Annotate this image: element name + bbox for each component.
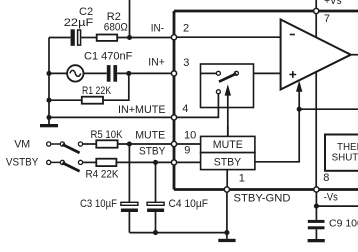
wire box to op-amp + <box>254 72 281 74</box>
node rail/source <box>46 71 51 76</box>
wire +Vs to pin 7 to op-amp <box>315 0 317 37</box>
svg-text:1: 1 <box>239 173 245 185</box>
wire bottom contact to IN+MUTE line <box>174 94 218 118</box>
svg-text:C4 10µF: C4 10µF <box>169 198 209 210</box>
svg-text:10: 10 <box>184 129 196 141</box>
wire arrow line MUTE box top <box>227 126 229 136</box>
op-amp U1 <box>281 20 351 90</box>
switch contact left <box>216 71 220 75</box>
svg-text:4: 4 <box>182 103 188 115</box>
svg-text:IN-: IN- <box>151 22 164 34</box>
node junction R2/pin2 <box>127 35 132 40</box>
switch lever <box>219 74 236 82</box>
node MUTE/C3 <box>127 141 132 146</box>
wire rail to source <box>49 72 67 74</box>
svg-text:680Ω: 680Ω <box>104 22 128 34</box>
resistor R5 <box>96 140 117 147</box>
arrow mute to switch <box>225 84 231 136</box>
svg-text:R1 22K: R1 22K <box>82 85 112 97</box>
switch contact bottom <box>216 90 220 94</box>
resistor R1 <box>82 97 103 104</box>
wire pin8 to -Vs rail <box>315 190 317 220</box>
node rail/IN+MUTE <box>46 115 51 120</box>
thermal shutdown block <box>325 135 358 171</box>
wire pin2 to op-amp minus <box>174 36 281 38</box>
ground <box>40 124 58 127</box>
pin 3 <box>171 71 176 76</box>
pin 8 <box>314 187 319 192</box>
svg-text:STBY-GND: STBY-GND <box>234 193 291 205</box>
node C4/rail <box>153 230 158 235</box>
ground <box>308 239 325 242</box>
wire to ground <box>226 233 228 239</box>
svg-text:+Vs: +Vs <box>324 0 342 7</box>
svg-text:2: 2 <box>183 23 189 35</box>
svg-text:STBY: STBY <box>139 146 166 158</box>
wire rail to R1 <box>49 99 82 101</box>
capacitor C2 <box>71 29 81 46</box>
wire source to C1 <box>84 72 107 74</box>
wire switch to R4 <box>83 161 97 163</box>
svg-text:C1 470nF: C1 470nF <box>84 50 133 62</box>
resistor R2 <box>97 35 118 41</box>
wire bottom rail <box>129 232 227 234</box>
capacitor C3 <box>121 202 138 212</box>
svg-text:8: 8 <box>323 172 329 184</box>
signal source V1 <box>67 65 83 81</box>
wire op-amp bottom to pin 8 <box>315 72 317 190</box>
svg-text:-Vs: -Vs <box>324 191 338 203</box>
svg-text:VM: VM <box>14 139 30 151</box>
node IN+ / R1 <box>126 71 131 76</box>
STBY block <box>201 153 255 170</box>
wire R5 to pin 10 / MUTE box <box>118 143 201 145</box>
pin 4 <box>171 115 176 120</box>
svg-text:R4 22K: R4 22K <box>86 169 120 181</box>
wire R1 to IN+ node <box>103 73 129 100</box>
svg-text:VSTBY: VSTBY <box>6 156 39 168</box>
switch box (mute switch) <box>201 64 254 108</box>
capacitor C1 <box>107 65 117 82</box>
svg-text:MUTE: MUTE <box>135 130 165 142</box>
svg-text:7: 7 <box>324 13 330 25</box>
pin 1 <box>224 187 229 192</box>
svg-text:R5 10K: R5 10K <box>91 129 124 141</box>
minus sign <box>290 34 295 36</box>
wire C3 vertical <box>128 144 130 233</box>
svg-text:C9 100nF: C9 100nF <box>329 217 358 229</box>
node bootstrap <box>297 107 302 112</box>
svg-text:22µF: 22µF <box>64 17 94 29</box>
wire: left input rail <box>49 38 71 125</box>
capacitor C9 <box>308 220 325 229</box>
wire switch to R5 <box>83 143 97 145</box>
svg-text:IN+MUTE: IN+MUTE <box>118 104 166 116</box>
capacitor C4 <box>147 202 164 212</box>
plus sign <box>289 71 296 78</box>
node rail/ground <box>224 230 229 235</box>
node -Vs <box>314 204 319 209</box>
switch SW-VM <box>47 142 83 153</box>
svg-text:IN+: IN+ <box>148 57 165 69</box>
wire C9 to ground <box>315 229 317 239</box>
IC TDA7294 outline <box>174 11 358 190</box>
wire R2 to pin 2 <box>117 37 174 39</box>
svg-text:C3 10µF: C3 10µF <box>80 198 117 210</box>
wire C4 vertical <box>155 162 157 232</box>
switch SW-VSTBY <box>47 160 83 171</box>
switch contact right <box>234 71 238 75</box>
node rail/R1 <box>46 98 51 103</box>
pin 10 <box>171 141 176 146</box>
wire inside box to contact <box>201 72 217 74</box>
svg-text:SHUTDOWN: SHUTDOWN <box>332 152 358 163</box>
wire bootstrap down to STBY feedback <box>255 109 299 162</box>
svg-text:3: 3 <box>183 57 189 69</box>
svg-text:STBY: STBY <box>214 156 242 168</box>
wire IN+MUTE rail to pin 4 <box>49 116 174 118</box>
MUTE block <box>201 136 255 152</box>
pin 7 <box>314 8 319 13</box>
wire bootstrap right <box>299 108 358 110</box>
wire output <box>351 54 358 56</box>
svg-text:C2: C2 <box>79 6 93 18</box>
ground <box>218 239 235 242</box>
wire R4 to pin 9 / STBY box <box>116 161 200 163</box>
wire STBY box to pin 1 <box>226 170 228 190</box>
resistor R4 <box>96 159 116 166</box>
wire pin1 to ground rail <box>226 190 228 233</box>
svg-text:9: 9 <box>184 144 190 156</box>
pin 9 <box>171 160 176 165</box>
svg-text:MUTE: MUTE <box>213 139 243 151</box>
arrow bootstrap to op-amp <box>296 80 302 109</box>
node STBY/C4 <box>153 160 158 165</box>
wire to top edge <box>129 0 131 38</box>
wire -Vs right <box>316 205 358 207</box>
wire C1 to pin 3 <box>117 72 174 74</box>
wire C2 to R2 <box>81 37 96 39</box>
pin 2 <box>171 35 176 40</box>
